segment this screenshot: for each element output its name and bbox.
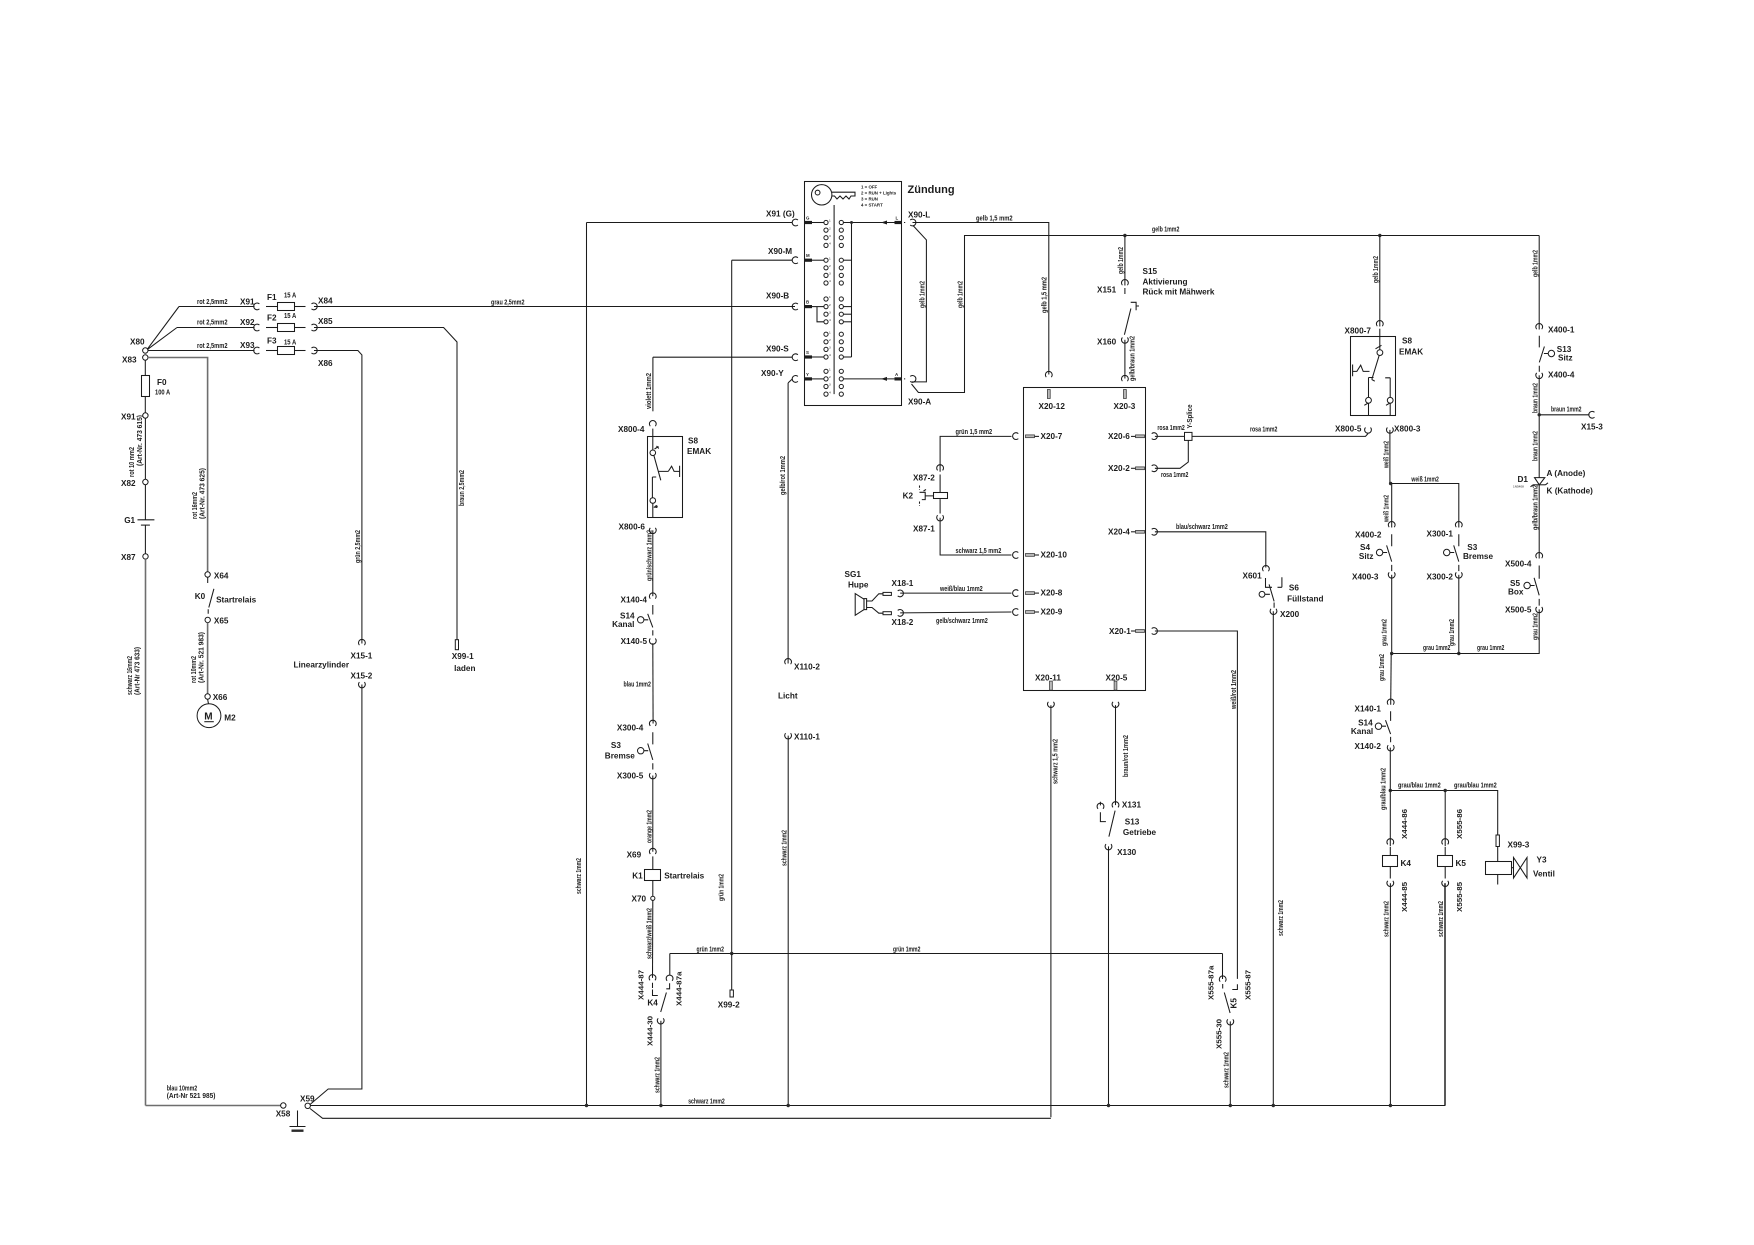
connector X15-2 — [351, 672, 373, 688]
wire F2 input row — [177, 318, 255, 328]
svg-text:Sitz: Sitz — [1359, 552, 1374, 561]
terminal M — [805, 253, 824, 262]
valve Y3 Ventil — [1486, 847, 1555, 885]
svg-text:X91 (G): X91 (G) — [766, 210, 795, 219]
svg-text:D1: D1 — [1518, 475, 1529, 484]
svg-text:braun/rot 1mm2: braun/rot 1mm2 — [1121, 735, 1130, 777]
svg-text:grau/blau 1mm2: grau/blau 1mm2 — [1379, 768, 1388, 810]
motor M2 — [197, 699, 236, 727]
connector X601 — [1243, 565, 1270, 580]
svg-text:X800-6: X800-6 — [619, 523, 646, 532]
svg-text:X160: X160 — [1097, 338, 1117, 347]
wire X800-6 to X140-4 — [645, 530, 654, 596]
connector X800-7 — [1345, 320, 1384, 335]
wire F3 input row — [197, 341, 255, 350]
svg-text:weiß/rot 1mm2: weiß/rot 1mm2 — [1229, 670, 1238, 710]
svg-text:S8: S8 — [688, 437, 698, 446]
svg-text:X400-4: X400-4 — [1548, 371, 1575, 380]
connector X90-B — [792, 303, 798, 310]
svg-text:4: 4 — [829, 242, 831, 246]
svg-text:(Art-Nr. 473 625): (Art-Nr. 473 625) — [198, 467, 207, 519]
switch box S8 EMAK right — [1351, 329, 1424, 416]
wire X90-Y row — [761, 369, 792, 383]
terminal S — [805, 350, 824, 359]
svg-text:X131: X131 — [1122, 801, 1142, 810]
svg-text:K4: K4 — [1401, 859, 1412, 868]
wire X86 to Linearzylinder column — [314, 351, 362, 644]
svg-text:2: 2 — [829, 375, 831, 379]
connector X90-A — [904, 376, 931, 407]
wire X91 to X82 — [144, 418, 146, 479]
svg-text:X84: X84 — [318, 297, 333, 306]
connector X444-87a — [666, 970, 683, 1006]
connector X87-1 — [913, 515, 943, 533]
svg-text:weiß 1mm2: weiß 1mm2 — [1381, 495, 1390, 523]
svg-text:grün 1mm2: grün 1mm2 — [717, 874, 726, 901]
wire graublau horizontal — [1390, 781, 1497, 836]
svg-text:K (Kathode): K (Kathode) — [1547, 487, 1594, 496]
svg-text:gelb 1mm2: gelb 1mm2 — [956, 281, 965, 308]
wire X160 to X20-3 — [1125, 336, 1137, 381]
svg-text:X66: X66 — [213, 693, 228, 702]
relay coil K2 — [903, 475, 948, 514]
wire X18-2 to X20-9 — [900, 612, 1011, 625]
svg-text:F3: F3 — [267, 337, 277, 346]
svg-text:1: 1 — [829, 368, 831, 372]
wire braun to X15-3 — [1539, 405, 1589, 415]
svg-text:grau 1mm2: grau 1mm2 — [1380, 619, 1389, 646]
svg-text:grau 1mm2: grau 1mm2 — [1377, 654, 1386, 681]
svg-text:X20-8: X20-8 — [1041, 589, 1063, 598]
wire X110-1 to bus — [780, 736, 789, 1106]
svg-text:X300-2: X300-2 — [1427, 573, 1454, 582]
svg-text:blau 1mm2: blau 1mm2 — [624, 680, 651, 689]
svg-text:X15-1: X15-1 — [351, 652, 373, 661]
svg-text:laden: laden — [454, 664, 475, 673]
svg-text:X99-2: X99-2 — [718, 1001, 740, 1010]
svg-text:S15: S15 — [1143, 267, 1158, 276]
svg-text:B: B — [806, 300, 809, 305]
svg-text:X800-4: X800-4 — [618, 425, 645, 434]
wire grau down to X140-1 — [1377, 654, 1391, 705]
svg-text:grün 1,5 mm2: grün 1,5 mm2 — [956, 427, 993, 436]
svg-text:X90-A: X90-A — [908, 398, 931, 407]
svg-text:X555-87: X555-87 — [1244, 970, 1253, 1000]
terminal Y — [805, 372, 824, 381]
svg-text:X601: X601 — [1243, 572, 1263, 581]
wire graublau down to K5 — [1445, 791, 1464, 847]
connector X200 — [1270, 609, 1299, 619]
svg-text:S3: S3 — [611, 741, 621, 750]
svg-text:X20-12: X20-12 — [1039, 402, 1066, 411]
wire X400-4 down to D1 — [1531, 375, 1541, 477]
wire M vertical down to gruen line — [731, 260, 733, 954]
svg-text:X200: X200 — [1280, 610, 1300, 619]
ignition right bus — [843, 221, 894, 379]
svg-text:1: 1 — [829, 256, 831, 260]
svg-text:braun 1mm2: braun 1mm2 — [1531, 383, 1540, 413]
wire X20-1 to X555-87 — [1155, 631, 1238, 979]
svg-text:X20-2: X20-2 — [1108, 464, 1130, 473]
svg-text:schwarz 1mm2: schwarz 1mm2 — [780, 830, 789, 866]
svg-text:F2: F2 — [267, 314, 277, 323]
svg-text:L: L — [896, 216, 899, 221]
svg-text:2: 2 — [829, 303, 831, 307]
wire X130 to bus — [1108, 846, 1110, 1105]
svg-text:Getriebe: Getriebe — [1123, 828, 1157, 837]
connector X151 — [1097, 279, 1128, 294]
wire X500-5 to grau collector — [1390, 609, 1540, 655]
svg-text:grün/schwarz 1mm2: grün/schwarz 1mm2 — [645, 530, 654, 581]
node X80 — [130, 338, 148, 354]
svg-text:rosa 1mm2: rosa 1mm2 — [1250, 424, 1277, 433]
svg-text:X151: X151 — [1097, 286, 1117, 295]
svg-text:Startrelais: Startrelais — [216, 595, 256, 604]
controller box — [1024, 388, 1146, 691]
svg-text:4 = START: 4 = START — [861, 203, 883, 208]
pin X20-8 — [1013, 589, 1063, 598]
svg-text:X20-9: X20-9 — [1041, 608, 1063, 617]
svg-text:schwarz 1mm2: schwarz 1mm2 — [574, 858, 583, 894]
pin X20-6 — [1108, 432, 1157, 441]
svg-text:SG1: SG1 — [845, 570, 862, 579]
svg-text:gelb 1mm2: gelb 1mm2 — [1152, 225, 1179, 234]
svg-text:4: 4 — [829, 318, 831, 322]
svg-text:X99-3: X99-3 — [1508, 841, 1530, 850]
svg-text:Licht: Licht — [778, 692, 798, 701]
wire S vertical down to X800-4 — [652, 357, 654, 411]
terminal A — [881, 372, 902, 381]
switch S15 Aktivierung — [1124, 267, 1214, 335]
terminal X99-2 — [718, 954, 740, 1010]
connector X300-5 — [617, 772, 656, 781]
svg-text:X400-2: X400-2 — [1355, 531, 1382, 540]
svg-text:2: 2 — [829, 264, 831, 268]
svg-text:X110-1: X110-1 — [794, 733, 820, 742]
wire G vertical down to bus — [586, 223, 588, 1106]
svg-text:gelb/schwarz 1mm2: gelb/schwarz 1mm2 — [936, 616, 988, 625]
svg-text:X20-3: X20-3 — [1114, 402, 1136, 411]
svg-text:X99-1: X99-1 — [452, 652, 474, 661]
svg-text:grün 2,5mm2: grün 2,5mm2 — [353, 530, 362, 563]
wire X140-5 to X300-4 — [624, 643, 654, 723]
svg-text:grün 1mm2: grün 1mm2 — [697, 944, 724, 953]
node X82 — [121, 479, 148, 488]
svg-text:orange 1mm2: orange 1mm2 — [645, 810, 654, 843]
svg-text:K2: K2 — [903, 492, 914, 501]
connector X800-6 — [619, 523, 657, 534]
svg-text:Y3: Y3 — [1537, 856, 1547, 865]
connector X300-2 — [1427, 572, 1463, 581]
connector X87-2 — [913, 465, 943, 483]
connector X444-30 — [646, 1016, 665, 1046]
svg-text:gelb 1mm2: gelb 1mm2 — [1531, 250, 1540, 277]
wire X200 to bus — [1273, 611, 1285, 1105]
wire X65 to X66 — [207, 623, 209, 694]
connector X500-4 — [1505, 552, 1543, 568]
bus2 to X20-11 — [310, 1109, 1051, 1119]
connector X110-1 — [785, 733, 821, 742]
svg-text:Rück mit Mähwerk: Rück mit Mähwerk — [1143, 288, 1215, 297]
svg-text:X90-M: X90-M — [768, 247, 792, 256]
svg-text:4: 4 — [829, 390, 831, 394]
svg-text:schwarz 1,5 mm2: schwarz 1,5 mm2 — [1051, 739, 1060, 784]
svg-text:gelb/braun 1mm2: gelb/braun 1mm2 — [1128, 336, 1137, 381]
battery G1 — [124, 485, 154, 554]
connector X131 — [1112, 801, 1141, 810]
svg-text:X400-3: X400-3 — [1352, 573, 1379, 582]
svg-text:braun 2,5mm2: braun 2,5mm2 — [457, 470, 466, 506]
wire X90-S row — [653, 345, 792, 358]
svg-text:X20-6: X20-6 — [1108, 432, 1130, 441]
switch S3 Bremse right — [1444, 534, 1494, 571]
svg-text:X20-11: X20-11 — [1035, 674, 1061, 683]
pin X20-1 — [1109, 627, 1157, 636]
svg-text:EMAK: EMAK — [1399, 348, 1423, 357]
svg-text:X70: X70 — [632, 895, 647, 904]
svg-text:rosa 1mm2: rosa 1mm2 — [1161, 470, 1188, 479]
svg-text:X20-1: X20-1 — [1109, 627, 1131, 636]
node X59 — [300, 1095, 315, 1109]
svg-text:X500-4: X500-4 — [1505, 560, 1532, 569]
svg-text:schwarz 1mm2: schwarz 1mm2 — [1276, 900, 1285, 936]
connector X86 — [312, 347, 334, 368]
svg-text:X444-86: X444-86 — [1400, 809, 1409, 839]
svg-text:X92: X92 — [240, 318, 255, 327]
node X83 — [122, 355, 148, 365]
svg-text:X85: X85 — [318, 317, 333, 326]
svg-text:X800-3: X800-3 — [1394, 425, 1421, 434]
node X91 battery — [121, 413, 148, 422]
svg-text:X555-86: X555-86 — [1455, 809, 1464, 839]
label schwarz 16mm2 ArtNr 473 633 — [125, 646, 142, 695]
svg-text:gelb/rot 1mm2: gelb/rot 1mm2 — [778, 456, 787, 495]
connector X555-86 — [1442, 839, 1449, 845]
svg-text:G: G — [806, 216, 810, 221]
svg-text:X93: X93 — [240, 341, 255, 350]
svg-text:schwarz/weiß 1mm2: schwarz/weiß 1mm2 — [645, 908, 654, 959]
svg-text:X90-Y: X90-Y — [761, 369, 784, 378]
wire X87-1 to X20-10 — [940, 518, 1011, 555]
svg-text:X555-85: X555-85 — [1455, 882, 1464, 912]
connector X92 — [254, 324, 260, 331]
wire X140-2 down to graublau junction — [1379, 748, 1393, 846]
svg-text:4: 4 — [829, 353, 831, 357]
svg-text:weiß 1mm2: weiß 1mm2 — [1381, 441, 1390, 469]
connector X800-5 — [1335, 425, 1371, 434]
svg-text:X82: X82 — [121, 479, 136, 488]
node X58 — [276, 1103, 291, 1119]
connector X555-30 — [1215, 1019, 1234, 1049]
wire F1 input row — [179, 297, 255, 306]
wire Y splice branch to X20-2 — [1155, 440, 1189, 479]
ignition contact rows — [824, 219, 844, 397]
connector X160 — [1097, 338, 1128, 347]
switch S3 Bremse left — [605, 732, 653, 769]
svg-text:4: 4 — [829, 279, 831, 283]
wire weiss horizontal to X300-1 — [1391, 474, 1459, 527]
svg-text:M2: M2 — [224, 714, 236, 723]
svg-text:weiß 1mm2: weiß 1mm2 — [1411, 474, 1439, 483]
svg-text:braun 1mm2: braun 1mm2 — [1531, 431, 1540, 461]
wire X20-11 to bus2 — [1051, 705, 1060, 1117]
svg-text:S6: S6 — [1289, 584, 1299, 593]
wire X800-3 down weiss — [1381, 430, 1392, 528]
svg-text:rot 2,5mm2: rot 2,5mm2 — [197, 318, 228, 327]
connector X800-4 — [618, 420, 656, 434]
svg-text:X300-1: X300-1 — [1427, 530, 1454, 539]
svg-text:grau 1mm2: grau 1mm2 — [1531, 613, 1540, 640]
relay coil K4 — [1383, 847, 1412, 879]
svg-text:3: 3 — [829, 383, 831, 387]
svg-text:schwarz 1,5 mm2: schwarz 1,5 mm2 — [956, 546, 1002, 555]
wire fan from X80 to fuse rows — [148, 307, 255, 351]
svg-text:X90-S: X90-S — [766, 345, 789, 354]
switch S14 Kanal right — [1351, 711, 1391, 742]
svg-text:X80: X80 — [130, 338, 145, 347]
pin X20-9 — [1013, 608, 1063, 617]
svg-text:(Art-Nr. 521 983): (Art-Nr. 521 983) — [197, 631, 206, 683]
junction X800-7 on gelb bus — [1378, 234, 1381, 237]
svg-text:K5: K5 — [1230, 998, 1239, 1009]
svg-text:15 A: 15 A — [284, 311, 296, 320]
wire X20-6 rosa to Y splice to X800-5 — [1155, 423, 1368, 436]
svg-text:X90-L: X90-L — [908, 211, 930, 220]
svg-text:Kanal: Kanal — [1351, 727, 1373, 736]
svg-text:Ventil: Ventil — [1533, 870, 1555, 879]
svg-text:(Art-Nr. 473 615): (Art-Nr. 473 615) — [135, 414, 144, 466]
connector X400-4 — [1536, 371, 1575, 380]
svg-text:X444-87a: X444-87a — [675, 970, 684, 1006]
svg-text:X500-5: X500-5 — [1505, 606, 1532, 615]
svg-text:15 A: 15 A — [284, 338, 296, 347]
connector X444-87 — [637, 970, 656, 1000]
svg-text:K4: K4 — [647, 999, 658, 1008]
svg-text:F1: F1 — [267, 293, 277, 302]
svg-text:X140-5: X140-5 — [621, 637, 648, 646]
svg-text:X15-3: X15-3 — [1581, 423, 1603, 432]
svg-text:2: 2 — [829, 226, 831, 230]
bus1 main — [310, 883, 1444, 1107]
svg-text:G1: G1 — [124, 516, 135, 525]
wire gelb 1,5mm2 X90-L to X20-12 — [913, 213, 1049, 374]
pin X20-3 — [1114, 375, 1136, 411]
svg-text:Sitz: Sitz — [1558, 354, 1573, 363]
svg-text:M: M — [806, 253, 810, 258]
svg-text:grau 1mm2: grau 1mm2 — [1447, 619, 1456, 646]
svg-text:grau 1mm2: grau 1mm2 — [1477, 643, 1504, 652]
wire X555-30 to bus — [1222, 1021, 1231, 1105]
svg-text:X59: X59 — [300, 1095, 315, 1104]
ground — [290, 1111, 306, 1132]
svg-text:schwarz 1mm2: schwarz 1mm2 — [688, 1096, 725, 1105]
ignition legend — [861, 185, 897, 208]
node X70 — [632, 895, 655, 904]
svg-text:3: 3 — [829, 310, 831, 314]
connector X91 — [254, 303, 260, 310]
svg-text:Y-Splice: Y-Splice — [1185, 405, 1194, 429]
switch box S8 EMAK left — [648, 429, 712, 518]
switch S13 Sitz — [1539, 336, 1572, 372]
svg-text:K0: K0 — [195, 592, 206, 601]
wire D1 to X500-4 — [1531, 485, 1540, 559]
pin X20-11 — [1035, 674, 1061, 708]
svg-text:S13: S13 — [1125, 818, 1140, 827]
connector X800-3 — [1387, 425, 1421, 434]
terminal X99-1 laden — [452, 640, 476, 673]
svg-text:X20-10: X20-10 — [1041, 551, 1068, 560]
label rot 16mm2 ArtNr 521 983 — [189, 631, 206, 683]
connector X110-2 — [785, 658, 821, 671]
key symbol — [812, 185, 856, 395]
connector X90-L — [904, 211, 930, 226]
fuse F2 15A — [266, 311, 306, 332]
wire X20-4 to X601 — [1155, 522, 1266, 568]
svg-text:Füllstand: Füllstand — [1287, 595, 1323, 604]
wire X15-2 down to X59 — [310, 685, 362, 1105]
connector X69 — [627, 848, 657, 859]
wire X400-3 to grau junction — [1380, 575, 1392, 654]
svg-text:Linearzylinder: Linearzylinder — [294, 661, 350, 670]
svg-text:X444-30: X444-30 — [646, 1016, 655, 1046]
fuse F3 15A — [266, 337, 306, 355]
pin X20-4 — [1108, 528, 1157, 537]
wire X20-5 to X131 — [1116, 705, 1131, 805]
connector X500-5 — [1505, 606, 1543, 615]
svg-text:X444-85: X444-85 — [1400, 882, 1409, 912]
bus1 left blau 10mm2 — [146, 1084, 281, 1106]
svg-text:Y: Y — [806, 372, 809, 377]
svg-text:Box: Box — [1508, 588, 1524, 597]
svg-text:gelb 1mm2: gelb 1mm2 — [918, 281, 927, 308]
svg-text:rosa 1mm2: rosa 1mm2 — [1157, 423, 1184, 432]
svg-text:S3: S3 — [1467, 543, 1477, 552]
svg-text:gelb 1mm2: gelb 1mm2 — [1371, 256, 1380, 283]
svg-text:Bremse: Bremse — [1463, 552, 1493, 561]
svg-text:X130: X130 — [1117, 848, 1137, 857]
svg-text:2: 2 — [829, 338, 831, 342]
svg-text:Bremse: Bremse — [605, 752, 635, 761]
relay contact K5 — [1223, 984, 1239, 1013]
svg-text:X65: X65 — [214, 617, 229, 626]
wire down to X800-7 — [1371, 236, 1380, 327]
node X64 — [205, 571, 229, 580]
wire X444-30 to bus — [653, 1021, 662, 1106]
svg-text:3: 3 — [829, 346, 831, 350]
svg-text:1 = OFF: 1 = OFF — [861, 185, 878, 190]
wire K5 to bus corner — [1436, 883, 1445, 1105]
connector X18-2 — [892, 609, 914, 627]
svg-text:X140-4: X140-4 — [621, 596, 648, 605]
connector X93 — [254, 347, 260, 354]
svg-text:S: S — [806, 350, 809, 355]
svg-text:schwarz 1mm2: schwarz 1mm2 — [1222, 1052, 1231, 1088]
svg-text:X300-4: X300-4 — [617, 724, 644, 733]
svg-text:15 A: 15 A — [284, 291, 296, 300]
svg-text:X87: X87 — [121, 553, 136, 562]
connector X90-M — [792, 257, 798, 264]
svg-text:1: 1 — [829, 219, 831, 223]
node X66 — [205, 693, 228, 702]
svg-text:X20-7: X20-7 — [1041, 432, 1063, 441]
wire X90-L branch down to X90-A — [912, 226, 927, 382]
connector X130 — [1105, 844, 1137, 857]
connector X300-1 — [1427, 521, 1463, 538]
terminal L — [881, 216, 902, 225]
svg-text:X300-5: X300-5 — [617, 772, 644, 781]
relay contact K0 Startrelais — [195, 577, 257, 614]
connector X84 — [312, 297, 334, 310]
